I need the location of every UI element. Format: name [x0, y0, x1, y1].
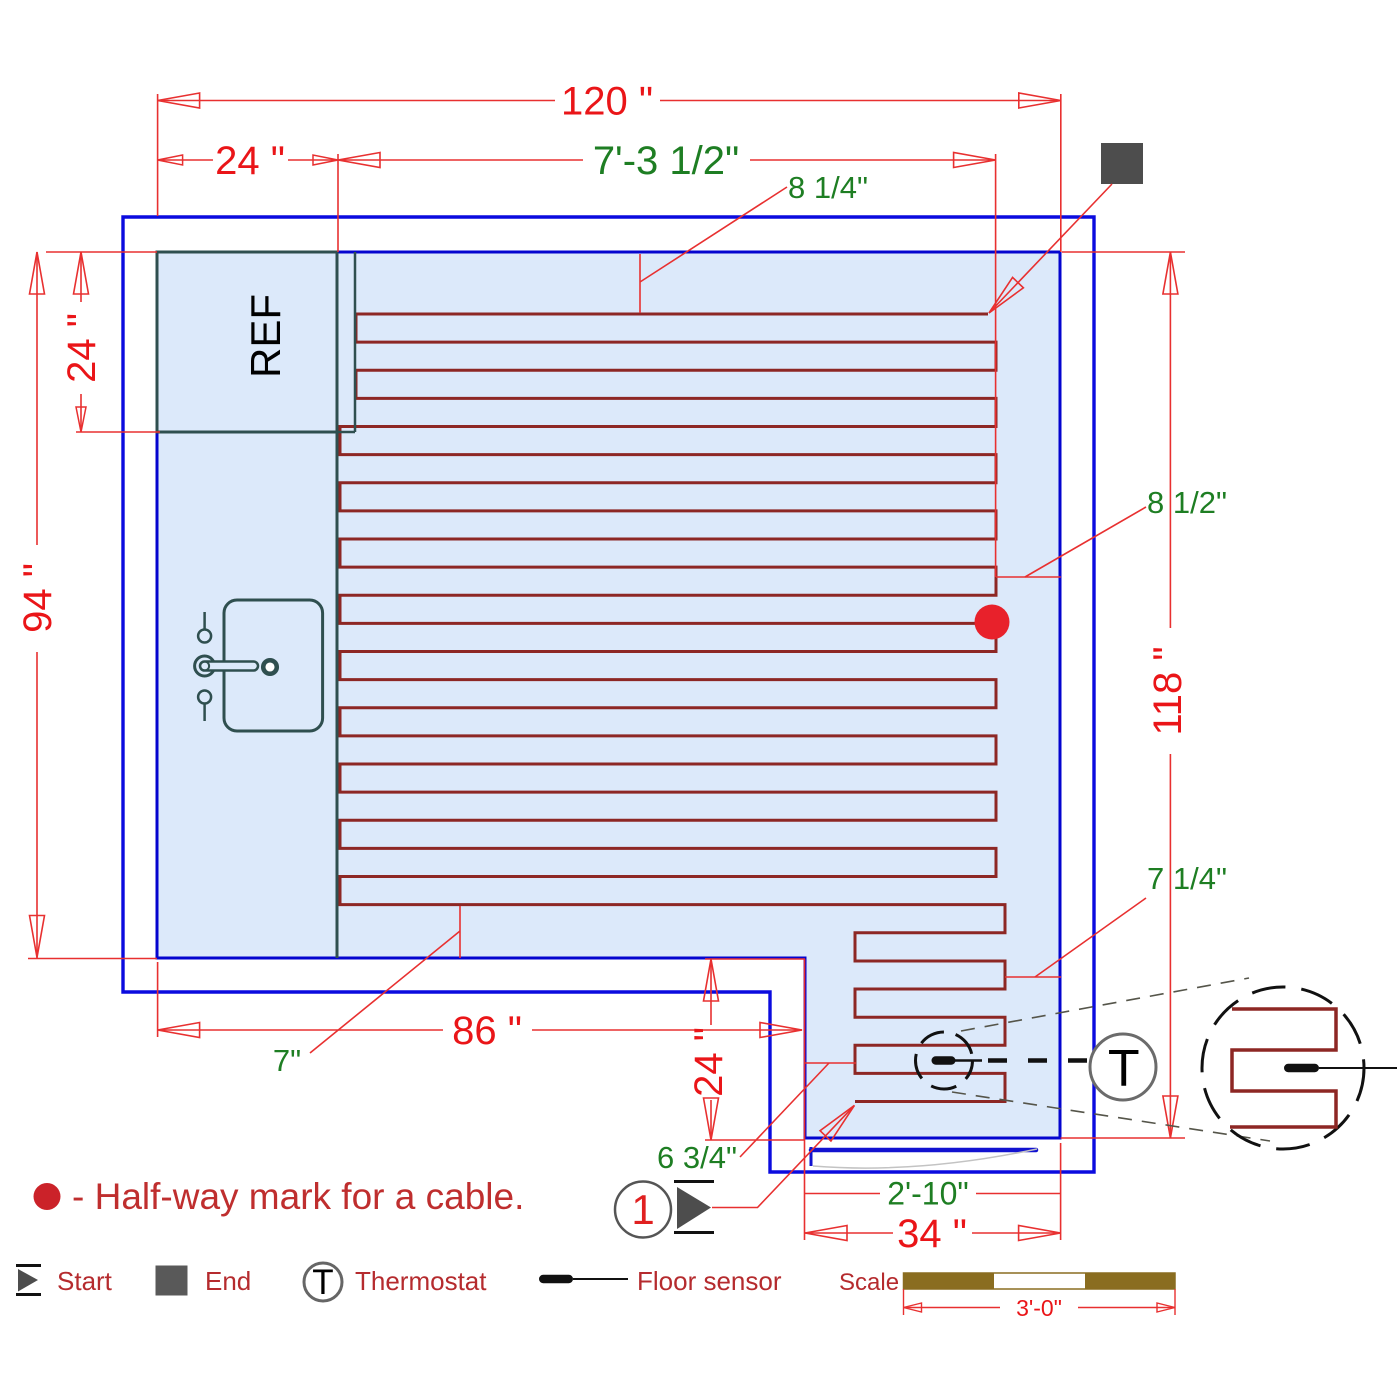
- door leaf: [811, 1148, 1036, 1153]
- heated mat area (light blue fill, blue border): [157, 252, 1060, 1138]
- End square symbol (top right): [1101, 143, 1143, 184]
- half-way mark dot on cable: [975, 605, 1010, 640]
- svg-text:REF: REF: [242, 294, 289, 378]
- start marker 1 (circle + flag): [615, 1182, 671, 1238]
- big dashed detail circle: [1202, 987, 1364, 1149]
- counter edge line: [336, 432, 339, 958]
- magnified cable detail: [1230, 1009, 1336, 1127]
- svg-text:Floor sensor: Floor sensor: [637, 1266, 782, 1296]
- sink drain: [263, 660, 277, 674]
- leader from End square to cable end: [989, 184, 1112, 313]
- svg-text:24 ": 24 ": [687, 1027, 731, 1097]
- sensor dashed wire to thermostat: [988, 1058, 1089, 1063]
- legend: start flag: [16, 1264, 41, 1267]
- half-way legend dot: [34, 1183, 61, 1210]
- room outline (outer walls): [123, 217, 1094, 1172]
- svg-text:94 ": 94 ": [16, 563, 60, 633]
- dimension 2'-10" (green): [805, 1193, 1061, 1195]
- scale dimension 3'-0": [904, 1289, 1176, 1315]
- svg-text:- Half-way mark for a cable.: - Half-way mark for a cable.: [72, 1176, 524, 1217]
- svg-text:7": 7": [273, 1043, 301, 1078]
- svg-text:120 ": 120 ": [561, 80, 653, 124]
- svg-text:6 3/4": 6 3/4": [657, 1140, 737, 1175]
- svg-text:T: T: [312, 1263, 333, 1302]
- dimension 120" top: [158, 94, 1061, 252]
- label 7" (green) with leader: [459, 906, 461, 958]
- legend: end square: [156, 1266, 188, 1296]
- scale bar: [904, 1273, 995, 1289]
- small dashed circle around floor sensor: [916, 1032, 973, 1089]
- door swing arc: [813, 1149, 1037, 1168]
- dimension 34": [805, 1143, 1061, 1240]
- svg-text:8 1/2": 8 1/2": [1147, 485, 1227, 520]
- sink top knob: [203, 612, 206, 630]
- svg-text:7 1/4": 7 1/4": [1147, 861, 1227, 896]
- label 7 1/4" (green) with leader: [1005, 976, 1061, 978]
- svg-text:Thermostat: Thermostat: [355, 1266, 487, 1296]
- REF box (fridge): [157, 252, 337, 432]
- sink basin: [224, 600, 323, 731]
- svg-text:34 ": 34 ": [897, 1212, 967, 1256]
- svg-text:T: T: [1108, 1040, 1140, 1098]
- leader from start marker to cable start: [712, 1105, 854, 1207]
- magnifier rays: [961, 978, 1249, 1031]
- dimension 86" bottom: [158, 959, 805, 1240]
- svg-text:1: 1: [631, 1186, 654, 1233]
- dimension 7'-3 1/2" (green): [338, 154, 996, 577]
- magnified sensor capsule: [1284, 1064, 1319, 1073]
- legend: floor sensor: [539, 1275, 573, 1284]
- sink bottom knob: [198, 691, 211, 704]
- fridge mat boundary line: [354, 252, 357, 432]
- legend: thermostat: [304, 1263, 342, 1301]
- dimension 24" bottom vertical: [705, 959, 805, 1140]
- svg-text:3'-0": 3'-0": [1016, 1295, 1062, 1321]
- svg-text:86 ": 86 ": [452, 1009, 522, 1053]
- sink faucet lever: [195, 656, 215, 676]
- label 8 1/2" (green) with leader: [996, 576, 1061, 578]
- svg-text:7'-3 1/2": 7'-3 1/2": [593, 139, 739, 183]
- door hinge stub: [810, 1147, 813, 1166]
- floor sensor capsule: [932, 1056, 956, 1065]
- svg-text:8 1/4": 8 1/4": [788, 170, 868, 205]
- svg-text:118 ": 118 ": [1146, 646, 1190, 735]
- svg-text:Scale: Scale: [839, 1269, 899, 1296]
- dimension 24" left vertical: [76, 252, 160, 432]
- label 8 1/4" (green) with leader: [640, 187, 787, 282]
- svg-text:24 ": 24 ": [215, 139, 285, 183]
- svg-text:End: End: [205, 1266, 251, 1296]
- svg-text:2'-10": 2'-10": [887, 1176, 969, 1212]
- thermostat circle: [1090, 1034, 1156, 1100]
- heating cable serpentine: [340, 314, 1005, 1102]
- svg-text:Start: Start: [57, 1266, 113, 1296]
- dimension 118" right vertical: [1061, 252, 1185, 1138]
- dimension 24" top: [158, 154, 338, 252]
- svg-text:24 ": 24 ": [60, 313, 104, 383]
- dimension 94" left vertical: [28, 252, 157, 959]
- label 6 3/4" (green) with leader: [805, 1062, 856, 1064]
